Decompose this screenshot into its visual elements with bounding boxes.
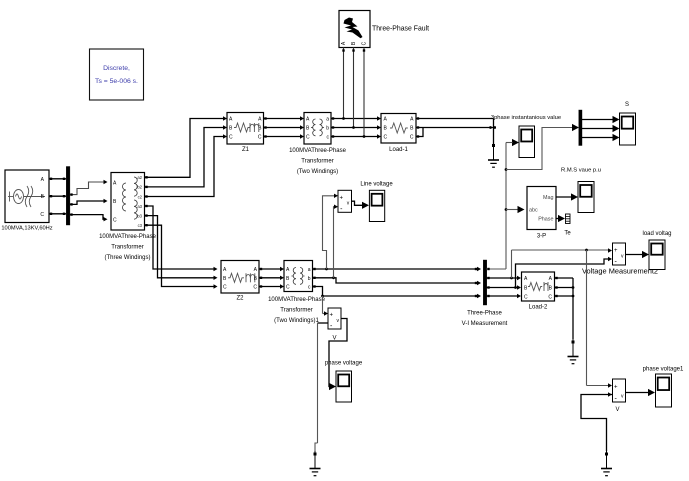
impedance Z1 (227, 113, 264, 145)
wire fault C down to bus node (363, 48, 365, 137)
wire bus to T1 input B (stepped) (70, 201, 104, 204)
svg-text:Te: Te (564, 231, 571, 237)
load Load-1 (381, 114, 416, 144)
impedance Z2 (221, 261, 259, 294)
svg-text:(Two Windings): (Two Windings) (297, 169, 338, 175)
svg-text:a: a (326, 117, 329, 123)
wire Line voltage V to scope (352, 201, 364, 205)
wire T1 a3 to Z2 A (145, 206, 215, 269)
svg-text:+: + (329, 313, 333, 319)
svg-text:c2: c2 (138, 194, 143, 199)
wire tap to mux (loop) (506, 128, 574, 170)
svg-text:C: C (40, 212, 44, 218)
svg-text:C: C (113, 217, 117, 223)
ground G3 (606, 451, 608, 469)
wire 3-P Mag to RMS scope (556, 196, 573, 198)
wire Z2 to T3 phase C (259, 286, 281, 288)
wire bus to T1 input A (stepped) (70, 182, 104, 195)
three-phase source 100MVA,13KV,60Hz (5, 170, 49, 223)
voltage measurement Line voltage block (338, 190, 352, 212)
svg-text:Transformer: Transformer (280, 308, 312, 314)
wire c-phase tap down to V2 + (322, 296, 324, 314)
transformer T2 100MVA three-phase two windings (top) (304, 113, 331, 145)
svg-text:C: C (306, 135, 310, 141)
svg-text:100MVAThree-Phase: 100MVAThree-Phase (99, 234, 156, 240)
svg-text:phase voltage: phase voltage (325, 361, 363, 367)
svg-text:a3: a3 (137, 204, 142, 209)
bus bar node B1 (66, 167, 70, 226)
wire Z1 to T2 phase C (264, 136, 301, 138)
svg-text:Phase: Phase (538, 217, 553, 223)
svg-text:V: V (615, 407, 619, 413)
svg-text:R.M.S vaue p.u: R.M.S vaue p.u (561, 168, 601, 174)
svg-text:Three-Phase: Three-Phase (467, 311, 502, 317)
wire phase B tap up to Voltage Measurement2 - (516, 259, 609, 288)
wire fault B down to bus node (353, 48, 355, 128)
wire T3 a to V-I bus phase a (313, 268, 478, 270)
svg-text:C: C (410, 135, 414, 141)
mux output 2 to scope S (582, 128, 615, 130)
svg-text:b: b (326, 126, 329, 132)
sequence analyzer 3-P (527, 187, 556, 230)
mux node (579, 110, 582, 146)
svg-text:C: C (384, 135, 388, 141)
wire tap to 3-P abc (506, 209, 520, 211)
wire V-I bus B to Load-2 B (487, 287, 518, 289)
wire phase A tap up to Voltage Measurement2 + (511, 250, 513, 278)
svg-text:Ts = 5e-006 s.: Ts = 5e-006 s. (95, 78, 138, 85)
wire 3-P Phase to Te (556, 218, 560, 220)
svg-text:100MVAThree-Phase: 100MVAThree-Phase (289, 148, 346, 154)
mux output 1 to scope S (582, 119, 615, 121)
voltage measurement Voltage Measurement2 block (613, 243, 626, 265)
svg-text:Transformer: Transformer (301, 159, 333, 165)
svg-text:3phase instantanious value: 3phase instantanious value (491, 115, 561, 121)
wire T1 c3 to Z2 C (145, 225, 215, 286)
wire T3 c step to V-I bus phase c (313, 287, 478, 297)
load Load-2 (522, 272, 555, 301)
svg-text:C: C (229, 135, 233, 141)
wire source A to bus (49, 178, 66, 180)
wire bus to T1 input C (stepped) (70, 215, 105, 220)
svg-text:load voltag: load voltag (642, 231, 671, 237)
svg-text:Transformer: Transformer (111, 245, 143, 251)
wire T2 c to Load-1 C (331, 136, 378, 138)
svg-text:+: + (614, 384, 618, 390)
bus bar three-phase V-I measurement (483, 260, 486, 305)
svg-text:Line voltage: Line voltage (360, 182, 393, 188)
svg-text:C: C (258, 135, 262, 141)
wire T2 b to Load-1 B (331, 127, 378, 129)
svg-text:Load-1: Load-1 (389, 147, 408, 153)
svg-text:c3: c3 (138, 223, 143, 228)
svg-text:Discrete,: Discrete, (103, 65, 130, 72)
svg-text:3-P: 3-P (537, 234, 546, 240)
annotation Discrete Ts = 5e-006 s (90, 49, 144, 100)
wire Z1 to T2 phase A (264, 118, 301, 120)
svg-text:+: + (614, 248, 618, 254)
svg-text:phase voltage1: phase voltage1 (643, 367, 684, 373)
wire Load-2 outputs to ground G2 (555, 277, 574, 279)
svg-text:C: C (223, 285, 227, 291)
wire V-I bus C to Load-2 C (487, 295, 518, 297)
terminator Te (566, 214, 571, 224)
wire long tap down to V + (586, 250, 588, 386)
voltage measurement V block (bottom right) (613, 379, 626, 402)
svg-text:(Two Windings)1: (Two Windings)1 (274, 318, 319, 324)
svg-text:+: + (340, 195, 344, 201)
wire Z2 to T3 phase A (259, 268, 281, 270)
wire V-I bus Vabc output (487, 268, 507, 270)
wire Voltage Measurement2 to load voltag scope (626, 254, 644, 256)
mux output 3 to scope S (582, 137, 615, 139)
scope 3phase instantanious value (519, 126, 535, 158)
svg-text:a2: a2 (137, 175, 142, 180)
wire V-I measurement Vabc up to taps (505, 143, 507, 270)
wire Load-1 A output to ground node (416, 118, 494, 120)
wire Load-1 C loop to B (416, 128, 423, 137)
svg-text:b3: b3 (137, 213, 142, 218)
three-phase fault block (339, 11, 370, 48)
svg-text:Z2: Z2 (236, 296, 244, 302)
svg-text:V-I Measurement: V-I Measurement (462, 321, 508, 327)
voltage measurement V2 block (328, 308, 341, 329)
wire V output to phase voltage1 scope (626, 392, 650, 394)
junction c-phase tap (321, 295, 324, 298)
wire source C to bus (49, 213, 66, 215)
wire T3 b step to V-I bus phase b (313, 278, 478, 283)
wire V2 output loop to phase voltage scope (329, 319, 347, 387)
svg-text:C: C (286, 285, 290, 291)
wire source B to bus (49, 195, 66, 197)
svg-text:S: S (625, 102, 629, 108)
ground G1 under phase A (493, 119, 495, 146)
svg-text:abc: abc (529, 208, 538, 214)
transformer T1 100MVA three-phase three windings (111, 173, 145, 231)
transformer T3 100MVA three-phase two windings 1 (bottom) (284, 261, 313, 292)
wire Z1 to T2 phase B (264, 127, 301, 129)
ground G2 (572, 339, 574, 357)
svg-text:a: a (308, 267, 311, 273)
svg-text:100MVA,13KV,60Hz: 100MVA,13KV,60Hz (1, 226, 52, 232)
svg-text:(Three Windings): (Three Windings) (104, 255, 150, 261)
svg-text:100MVAThree-Phase: 100MVAThree-Phase (268, 297, 325, 303)
wire T1 a2 to Z1 A (145, 119, 225, 178)
wire Z2 to T3 phase B (259, 277, 281, 279)
svg-text:b2: b2 (137, 185, 142, 190)
svg-text:Z1: Z1 (242, 147, 250, 153)
junction b-phase tap (332, 276, 335, 279)
wire V - loop to ground G3 (581, 395, 612, 452)
wire T1 b3 to Z2 B (145, 216, 215, 278)
svg-text:C: C (548, 294, 552, 300)
wire fault A down to bus node (343, 48, 345, 119)
svg-text:C: C (524, 294, 528, 300)
svg-text:Three-Phase Fault: Three-Phase Fault (372, 26, 429, 33)
wire V2 - to ground (318, 322, 329, 324)
wire T2 a to Load-1 A (331, 118, 378, 120)
wire V-I bus A to Load-2 A (487, 277, 518, 279)
svg-text:Voltage Measurement2: Voltage Measurement2 (582, 267, 658, 276)
svg-text:Load-2: Load-2 (529, 305, 548, 311)
svg-text:C: C (362, 41, 368, 45)
wire T1 c2 to Z1 C (145, 137, 225, 197)
wire a-phase tap up to Line voltage + (323, 196, 335, 269)
svg-text:b: b (308, 276, 311, 282)
ground G-mid bottom (315, 443, 318, 451)
junction a-phase tap (325, 268, 328, 271)
wire Load-1 B output (416, 127, 496, 129)
svg-text:Mag: Mag (543, 195, 554, 201)
wire b-phase tap up to Line voltage - (334, 207, 335, 278)
wire T1 b2 to Z1 B (145, 128, 225, 187)
svg-text:C: C (253, 285, 257, 291)
